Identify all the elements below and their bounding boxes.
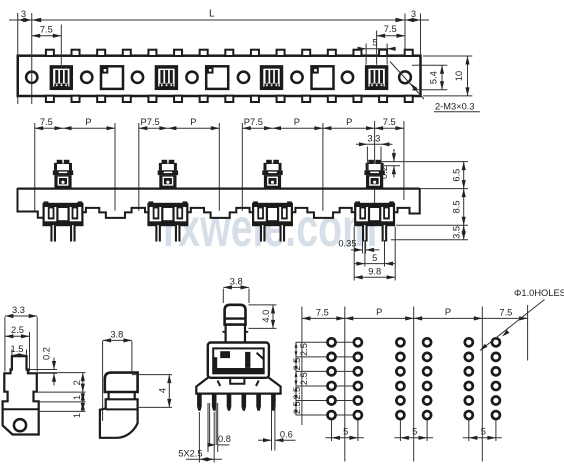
svg-text:P: P (85, 117, 91, 127)
svg-text:P: P (346, 117, 352, 127)
svg-text:3.3: 3.3 (367, 133, 380, 143)
svg-text:1: 1 (72, 413, 82, 418)
svg-text:2.5: 2.5 (299, 343, 309, 356)
svg-text:3.8: 3.8 (230, 276, 243, 286)
svg-text:2: 2 (72, 380, 82, 385)
svg-text:5: 5 (372, 38, 377, 48)
svg-text:9.8: 9.8 (368, 267, 381, 277)
svg-text:7.5: 7.5 (40, 117, 53, 127)
svg-text:5X2.5: 5X2.5 (178, 449, 202, 459)
svg-text:7.5: 7.5 (383, 117, 396, 127)
svg-text:0.2: 0.2 (379, 166, 389, 179)
svg-text:2.5: 2.5 (11, 325, 24, 335)
svg-text:P7.5: P7.5 (244, 117, 263, 127)
svg-text:6.5: 6.5 (451, 169, 461, 182)
svg-text:2.5: 2.5 (292, 387, 302, 400)
svg-text:8.5: 8.5 (451, 200, 461, 213)
svg-text:1: 1 (72, 395, 82, 400)
svg-text:3.5: 3.5 (451, 226, 461, 239)
svg-text:4.0: 4.0 (261, 310, 271, 323)
svg-text:Φ1.0HOLES: Φ1.0HOLES (514, 288, 564, 298)
svg-text:5: 5 (372, 253, 377, 263)
svg-text:5: 5 (412, 427, 417, 437)
svg-text:2.5: 2.5 (292, 358, 302, 371)
svg-text:5.4: 5.4 (429, 71, 439, 84)
svg-text:2-M3×0.3: 2-M3×0.3 (435, 101, 475, 111)
svg-text:7.5: 7.5 (384, 24, 397, 34)
svg-text:0.6: 0.6 (280, 430, 293, 440)
svg-text:5: 5 (481, 427, 486, 437)
svg-text:1.5: 1.5 (11, 344, 24, 354)
svg-text:0.8: 0.8 (218, 434, 231, 444)
svg-text:P: P (190, 117, 196, 127)
svg-text:5: 5 (343, 427, 348, 437)
svg-text:4: 4 (157, 388, 167, 393)
svg-text:10: 10 (454, 71, 464, 81)
svg-text:P: P (445, 307, 451, 317)
svg-text:7.5: 7.5 (316, 307, 329, 317)
svg-text:2.5: 2.5 (299, 372, 309, 385)
svg-text:3.3: 3.3 (12, 305, 25, 315)
svg-text:3: 3 (411, 9, 416, 19)
svg-text:3: 3 (21, 9, 26, 19)
svg-text:P7.5: P7.5 (141, 117, 160, 127)
svg-text:0.2: 0.2 (42, 347, 52, 360)
svg-text:2.5: 2.5 (292, 401, 302, 414)
svg-text:3.8: 3.8 (110, 329, 123, 339)
svg-text:P: P (294, 117, 300, 127)
svg-text:7.5: 7.5 (499, 307, 512, 317)
svg-text:L: L (209, 9, 215, 20)
svg-text:P: P (376, 307, 382, 317)
svg-text:7.5: 7.5 (40, 25, 53, 35)
